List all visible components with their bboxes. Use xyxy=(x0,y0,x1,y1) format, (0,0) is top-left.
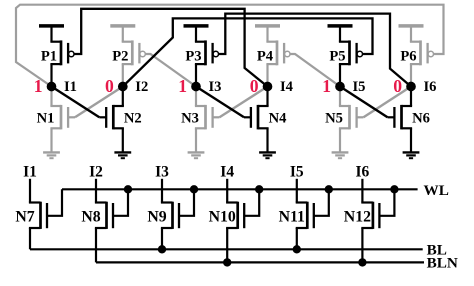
svg-text:I4: I4 xyxy=(220,163,234,180)
bit line BLN xyxy=(96,261,424,263)
ground of inverter 5 xyxy=(339,128,341,152)
junction of N8 gate on WL xyxy=(124,185,132,193)
word line WL xyxy=(62,188,418,190)
svg-text:N7: N7 xyxy=(15,208,34,225)
svg-text:I1: I1 xyxy=(64,79,77,95)
wire node I3 to gate of N4 xyxy=(196,87,244,118)
NMOS transistor N2 xyxy=(122,87,124,107)
wire node I2 to gate of P5 (top route) xyxy=(123,18,373,86)
pass transistor N8 xyxy=(95,179,97,203)
ground of inverter 6 xyxy=(410,128,412,152)
svg-text:I5: I5 xyxy=(353,79,366,95)
svg-text:N2: N2 xyxy=(124,110,142,126)
VDD rail of inverter 4 xyxy=(255,24,280,28)
svg-text:N8: N8 xyxy=(81,208,100,225)
PMOS transistor P3 xyxy=(195,26,197,42)
junction of N10 on BLN xyxy=(223,258,231,266)
junction of N10 gate on WL xyxy=(255,185,263,193)
PMOS transistor P1 xyxy=(50,26,52,42)
ground of inverter 1 xyxy=(50,128,52,152)
svg-text:N11: N11 xyxy=(279,208,305,225)
node I1 junction dot xyxy=(47,82,57,92)
wire node I3 to gate of P2 xyxy=(145,54,196,87)
wire node I5 to gate of P4 xyxy=(290,54,340,87)
wire node I1 to gate of P6 (border route) xyxy=(16,5,444,87)
junction of N9 gate on WL xyxy=(190,185,198,193)
pass transistor N9 xyxy=(161,179,163,203)
node I4 junction dot xyxy=(263,82,273,92)
ground of inverter 3 xyxy=(195,128,197,152)
NMOS transistor N6 xyxy=(410,87,412,107)
svg-text:N1: N1 xyxy=(37,110,55,126)
NMOS transistor N5 xyxy=(339,87,341,107)
junction of N12 on BLN xyxy=(358,258,366,266)
VDD rail of inverter 2 xyxy=(110,24,135,28)
svg-text:N12: N12 xyxy=(344,208,371,225)
svg-text:I4: I4 xyxy=(280,79,294,95)
PMOS transistor P4 xyxy=(266,26,268,42)
NMOS transistor N4 xyxy=(266,87,268,107)
pass transistor N11 xyxy=(296,179,298,203)
bit line BL xyxy=(30,248,423,250)
svg-text:WL: WL xyxy=(424,182,449,199)
svg-text:I1: I1 xyxy=(23,163,37,180)
svg-text:I2: I2 xyxy=(135,79,148,95)
pass transistor N10 xyxy=(226,179,228,203)
svg-text:I6: I6 xyxy=(424,79,437,95)
svg-text:BLN: BLN xyxy=(427,255,458,272)
junction of N11 gate on WL xyxy=(325,185,333,193)
wire node I6 to gate of N5 xyxy=(364,87,412,118)
svg-text:N9: N9 xyxy=(147,208,166,225)
wire node I4 to gate of N3 xyxy=(220,87,268,118)
junction of N12 gate on WL xyxy=(390,185,398,193)
node I2 junction dot xyxy=(118,82,128,92)
node I5 junction dot xyxy=(335,82,345,92)
svg-text:I5: I5 xyxy=(290,163,304,180)
svg-text:I3: I3 xyxy=(155,163,169,180)
svg-text:I6: I6 xyxy=(356,163,370,180)
wire node I6 to gate of P3 (top route) xyxy=(219,14,412,87)
pass transistor N12 xyxy=(361,179,363,203)
svg-text:P4: P4 xyxy=(257,49,274,65)
svg-text:P2: P2 xyxy=(112,49,128,65)
VDD rail of inverter 6 xyxy=(399,24,424,28)
wire node I2 to gate of N1 xyxy=(75,87,123,118)
svg-text:N3: N3 xyxy=(181,110,199,126)
svg-text:N4: N4 xyxy=(269,110,288,126)
wire node I4 to gate of P1 (top route) xyxy=(74,9,268,87)
ground of inverter 4 xyxy=(266,128,268,152)
svg-text:N6: N6 xyxy=(412,110,430,126)
VDD rail of inverter 3 xyxy=(184,24,209,28)
NMOS transistor N1 xyxy=(50,87,52,107)
svg-text:I2: I2 xyxy=(89,163,103,180)
svg-text:N10: N10 xyxy=(209,208,236,225)
PMOS transistor P2 xyxy=(122,26,124,42)
pass transistor N7 xyxy=(29,179,31,203)
node I6 junction dot xyxy=(406,82,416,92)
PMOS transistor P5 xyxy=(339,26,341,42)
ground of inverter 2 xyxy=(122,128,124,152)
svg-text:P5: P5 xyxy=(329,49,345,65)
junction of N9 on BL xyxy=(158,245,166,253)
wire node I5 to gate of N6 xyxy=(340,87,388,118)
svg-text:P3: P3 xyxy=(185,49,201,65)
NMOS transistor N3 xyxy=(195,87,197,107)
svg-text:I3: I3 xyxy=(209,79,222,95)
svg-text:P6: P6 xyxy=(400,49,416,65)
VDD rail of inverter 1 xyxy=(39,24,64,28)
node I3 junction dot xyxy=(191,82,201,92)
svg-text:P1: P1 xyxy=(41,49,57,65)
VDD rail of inverter 5 xyxy=(328,24,353,28)
junction of N11 on BL xyxy=(293,245,301,253)
PMOS transistor P6 xyxy=(410,26,412,42)
wire node I1 to gate of N2 xyxy=(52,87,100,118)
svg-text:N5: N5 xyxy=(325,110,343,126)
